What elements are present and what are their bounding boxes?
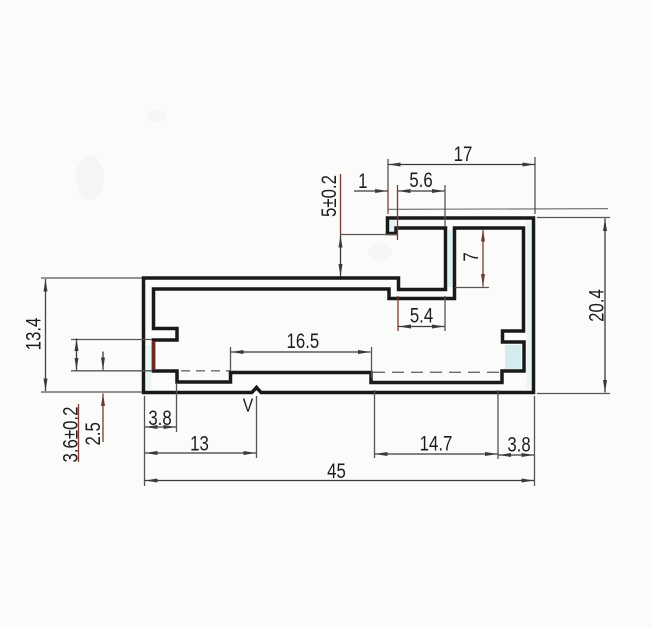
dimension 16.5: extension line right bbox=[371, 347, 373, 378]
svg-text:5.6: 5.6 bbox=[409, 169, 432, 192]
dimension 5.4: extension line left (red) bbox=[397, 296, 399, 331]
svg-text:3.8: 3.8 bbox=[148, 407, 171, 430]
dimension 14.7: dimension line bbox=[375, 453, 498, 455]
dimension 5.4: dimension line bbox=[399, 326, 445, 328]
svg-text:7: 7 bbox=[460, 252, 483, 261]
scan tint: hooklet gap bbox=[390, 220, 395, 232]
svg-text:17: 17 bbox=[454, 143, 473, 166]
svg-text:2.5: 2.5 bbox=[82, 422, 105, 445]
svg-text:13.4: 13.4 bbox=[23, 317, 46, 350]
dimension 45: dimension line bbox=[145, 480, 534, 482]
svg-text:45: 45 bbox=[327, 460, 346, 483]
dimension 13: dimension line bbox=[145, 452, 256, 454]
dimension 13.4: dimension line bbox=[45, 279, 47, 391]
dimension 20.4: extension line bottom bbox=[537, 393, 610, 395]
dimension 13.4: extension line top bbox=[41, 277, 142, 279]
dimension 3.6±0.2: extension line top bbox=[71, 339, 152, 341]
profile inner outline bbox=[154, 228, 525, 383]
svg-text:20.4: 20.4 bbox=[586, 289, 609, 322]
dimension 14.7: extension line left bbox=[374, 390, 376, 458]
svg-text:16.5: 16.5 bbox=[287, 330, 320, 353]
dimension 5±0.2: dimension line upper leader bbox=[340, 174, 342, 234]
dimension 3.8 right: dimension line bbox=[499, 454, 535, 456]
dimension 7: dimension line (red) bbox=[482, 229, 484, 287]
svg-text:13: 13 bbox=[190, 433, 209, 456]
dimension 5.6: extension line right bbox=[444, 185, 446, 226]
svg-text:5.4: 5.4 bbox=[410, 305, 434, 328]
dimension 3.6±0.2: lower leader (red) bbox=[78, 404, 80, 462]
dimension 3.8 right: extension line right bbox=[534, 396, 536, 486]
dimension 5.4: extension line right bbox=[444, 296, 446, 331]
profile outer outline bbox=[144, 218, 534, 393]
red-tinted wall segment (scan coloration) bbox=[152, 341, 156, 370]
dimension 5±0.2: extension line at hook bottom bbox=[340, 234, 397, 236]
scan tint: left wall gap bottom bbox=[147, 345, 152, 389]
dimension 13: extension line right (from V notch) bbox=[256, 396, 258, 458]
svg-text:1: 1 bbox=[358, 170, 367, 193]
dimension 16.5: dimension line bbox=[231, 351, 371, 353]
hidden dashed seam line left bbox=[181, 370, 230, 372]
dimension 5±0.2: arrows bbox=[340, 235, 342, 277]
scan tint: right pocket bbox=[505, 345, 521, 369]
dimension 3.8 left: extension line right bbox=[176, 384, 178, 432]
dimension 3.6±0.2: dimension line bbox=[76, 339, 78, 371]
dimension 3.8 left: dimension line bbox=[145, 426, 176, 428]
dimension 14.7: extension line right bbox=[497, 390, 499, 459]
svg-text:3.8: 3.8 bbox=[507, 434, 530, 457]
dimension 3.6±0.2: extension line bottom bbox=[71, 370, 152, 372]
dimension 20.4: extension line top bbox=[537, 217, 610, 219]
dimension 2.5: upper arrow segment bbox=[102, 352, 104, 370]
dimension 5.6: dimension line bbox=[398, 190, 445, 192]
dimension 17: dimension line bbox=[388, 164, 535, 166]
dimension 3.8 left: extension line left bbox=[144, 396, 146, 486]
construction line above profile bbox=[388, 208, 608, 211]
dimension 16.5: extension line left bbox=[230, 347, 232, 371]
faint scan smudges bbox=[76, 156, 104, 200]
svg-text:3.6±0.2: 3.6±0.2 bbox=[60, 407, 83, 463]
svg-text:V: V bbox=[243, 394, 254, 416]
svg-text:14.7: 14.7 bbox=[420, 433, 453, 456]
dimension 2.5: lower arrow segment (red) bbox=[102, 394, 104, 443]
svg-text:5±0.2: 5±0.2 bbox=[318, 175, 341, 217]
dimension 7: extension line bottom bbox=[455, 287, 489, 289]
hidden dashed seam line right bbox=[373, 371, 501, 373]
dimension 1: dimension line with right arrow bbox=[354, 190, 388, 192]
dimension 17: extension line right bbox=[534, 157, 536, 214]
dimension 20.4: dimension line bbox=[604, 219, 606, 393]
scan tint: middle wall gap bbox=[448, 230, 454, 287]
dimension 13.4: extension line bottom bbox=[41, 391, 142, 393]
dimension 17: extension line left bbox=[387, 159, 389, 188]
scan tint: right wall gap bbox=[527, 221, 532, 389]
dimension 5.6: shared extension line (red) bbox=[397, 185, 399, 240]
